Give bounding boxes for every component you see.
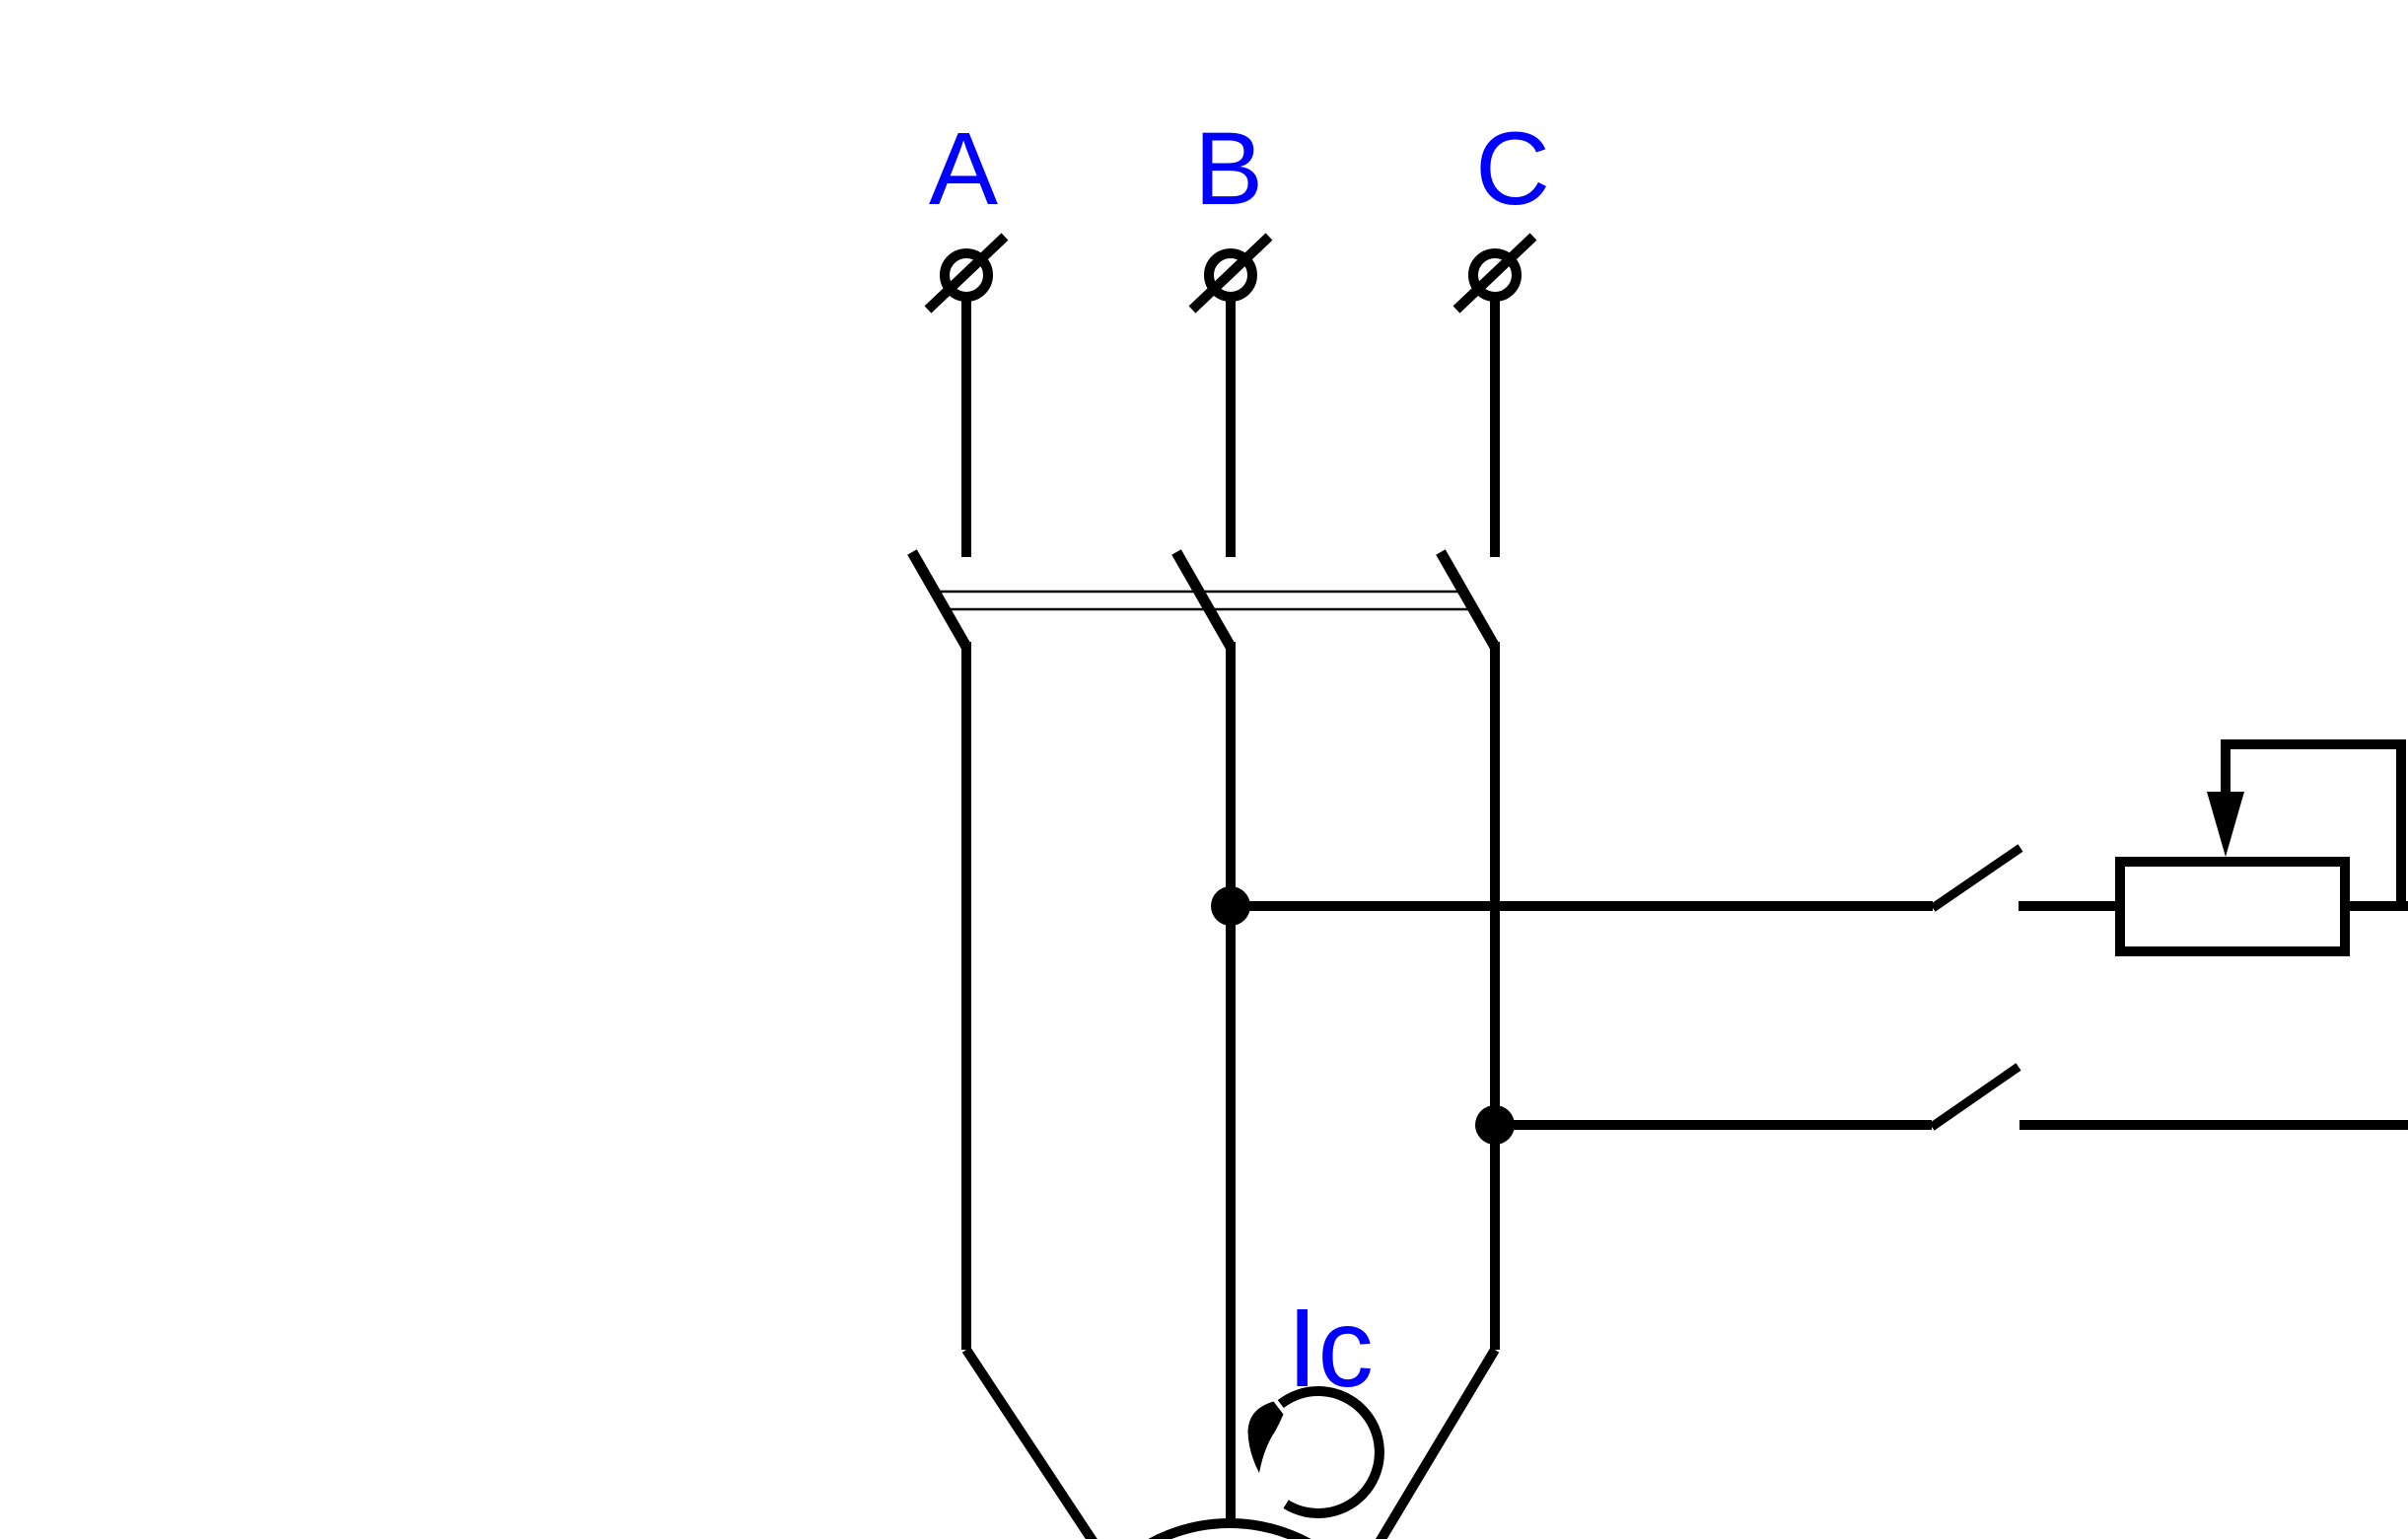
terminal B (circle with slash)	[1192, 237, 1269, 310]
switch blade pole B	[1176, 552, 1231, 647]
wire rheostat right terminal to edge	[2345, 901, 2408, 911]
wire S2 to right edge	[2019, 1120, 2408, 1130]
wire node C to switch S2	[1495, 1120, 1932, 1130]
wire terminal B to switch pole B	[1226, 297, 1236, 557]
rheostat R body	[2120, 862, 2345, 951]
circular current arrow Ic	[1248, 1391, 1380, 1513]
svg-text:C: C	[1475, 111, 1550, 227]
wire C diagonal to motor	[1368, 1350, 1495, 1539]
svg-text:B: B	[1194, 111, 1263, 227]
switch S1 blade	[1933, 848, 2020, 908]
svg-text:A: A	[929, 111, 998, 227]
3-pole switch mechanical linkage	[935, 592, 1476, 609]
wire A diagonal to motor	[966, 1350, 1106, 1539]
switch blade pole A	[912, 552, 966, 647]
wire B below switch to motor	[1226, 642, 1236, 1524]
wire A below switch	[961, 642, 971, 1350]
switch S2 blade	[1932, 1067, 2018, 1127]
wire terminal C to switch pole C	[1490, 297, 1500, 557]
rheostat wiper arrow	[2207, 742, 2244, 857]
wire terminal A to switch pole A	[961, 297, 971, 557]
junction node on phase B	[1211, 886, 1250, 926]
junction node on phase C	[1475, 1105, 1515, 1145]
motor M (partial circle at bottom)	[1064, 1523, 1395, 1539]
switch blade pole C	[1441, 552, 1495, 647]
terminal A (circle with slash)	[928, 237, 1005, 310]
wire S1 to rheostat	[2018, 901, 2125, 911]
wire C below switch	[1490, 642, 1500, 1350]
wire node B to switch S1	[1231, 901, 1933, 911]
terminal C (circle with slash)	[1456, 237, 1533, 310]
rheostat wiper short-circuit loop	[2221, 744, 2401, 906]
